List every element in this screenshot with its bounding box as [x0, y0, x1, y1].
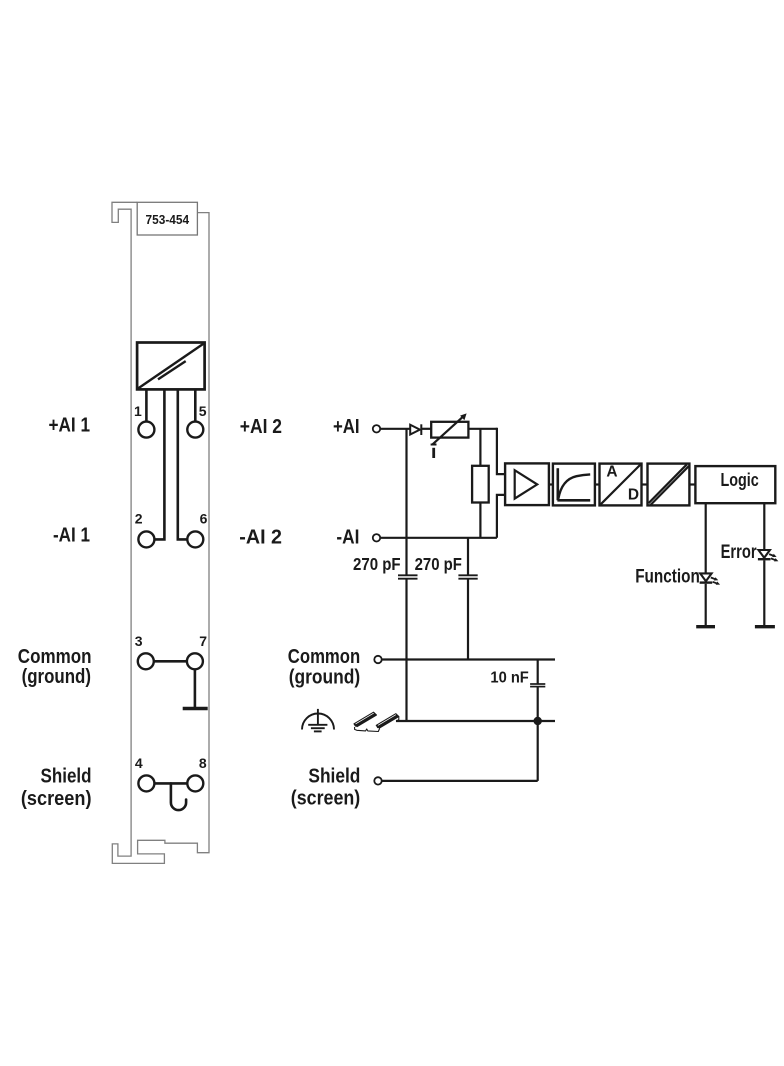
wire -AI node to tap line [380, 537, 497, 539]
wire logic to Function LED [705, 503, 707, 573]
shield hook symbol below wire 4-8 [171, 783, 186, 810]
terminal 1 [138, 422, 154, 438]
Function LED D2 [700, 573, 721, 584]
wire logic to Error LED [763, 503, 765, 550]
terminal 5 [187, 422, 203, 438]
A/D converter box U4 [600, 464, 642, 506]
node circle Shield [374, 777, 381, 784]
shunt resistor R2 [472, 466, 489, 503]
svg-text:(ground): (ground) [289, 667, 361, 689]
svg-text:5: 5 [199, 403, 207, 419]
wire upper tap into amplifier [497, 428, 505, 474]
wire branch C1 lower segment (cap C1 down to earth line) [405, 579, 407, 721]
shield wire to node [382, 780, 538, 782]
wire Error LED to ground bar [763, 560, 765, 626]
diode D1 [410, 424, 421, 435]
wire terminal 4 to terminal 8 [155, 782, 187, 785]
wire terminal 3 to terminal 7 [154, 660, 186, 663]
terminal 7 [187, 653, 203, 669]
svg-text:3: 3 [135, 633, 143, 649]
functional earth symbol [302, 709, 334, 732]
terminal 6 [187, 531, 203, 547]
wire A/D to isolation [642, 483, 648, 485]
node circle -AI [373, 534, 380, 541]
wire branch C2 lower segment (cap C2 down to Common line) [467, 579, 469, 660]
svg-text:+AI 1: +AI 1 [49, 415, 91, 437]
isolation box U5 (double diagonal) [648, 464, 690, 506]
terminal 8 [187, 775, 203, 791]
svg-text:2: 2 [135, 511, 143, 527]
svg-text:Common: Common [18, 646, 92, 668]
wire shunt bottom lead [479, 503, 481, 538]
module body outline with DIN-rail hook and foot [112, 202, 209, 863]
wire branch C2 upper segment (-AI down to cap C2) [467, 538, 469, 575]
Error LED D3 [758, 550, 779, 561]
svg-text:10 nF: 10 nF [490, 670, 529, 687]
capacitor C3 10 nF upper lead [537, 660, 539, 684]
wire +AI node to diode [380, 428, 410, 430]
svg-text:+AI 2: +AI 2 [240, 416, 282, 438]
MODULE-OUTLINE [112, 202, 209, 863]
wire filter to A/D [595, 483, 600, 485]
svg-text:(screen): (screen) [291, 788, 360, 810]
svg-text:8: 8 [199, 755, 207, 771]
junction dot [534, 717, 542, 725]
svg-text:+AI: +AI [333, 416, 360, 438]
capacitor C3 lower lead down to junction [537, 687, 539, 721]
DIN rail symbol (3D) [354, 712, 399, 731]
ground bar for Function LED [696, 625, 715, 628]
wire lower tap into amplifier [497, 495, 505, 538]
wire shunt top lead [479, 429, 481, 466]
svg-text:(ground): (ground) [22, 666, 91, 688]
svg-text:A: A [606, 464, 617, 481]
terminal 3 [138, 653, 154, 669]
variable resistor R1 (adjustable, with arrow) [431, 413, 469, 444]
filter box U3 (settling curve) [553, 464, 595, 506]
pin wire from box to terminal 6 (with jog) [178, 389, 187, 539]
svg-text:7: 7 [199, 633, 207, 649]
wire variable resistor to tap line [468, 428, 497, 430]
svg-text:1: 1 [134, 403, 142, 419]
wire isolation to logic [689, 483, 695, 485]
svg-text:6: 6 [200, 511, 208, 527]
svg-text:753-454: 753-454 [146, 212, 190, 227]
amplifier box U2 [505, 463, 549, 505]
svg-text:Shield: Shield [308, 765, 360, 787]
wire branch C1 upper segment (+AI down to cap C1) [405, 429, 407, 575]
logic box U6 [695, 466, 775, 503]
svg-text:Error: Error [721, 542, 757, 563]
wire Common node line [382, 658, 555, 660]
node circle +AI [373, 425, 380, 432]
converter box U1 (isolation symbol inside module) [137, 343, 205, 390]
svg-text:(screen): (screen) [21, 788, 92, 810]
capacitor C2 270 pF [458, 575, 477, 578]
wire Function LED to ground bar [705, 584, 707, 627]
svg-text:Logic: Logic [720, 469, 758, 490]
svg-text:Function: Function [635, 567, 700, 588]
svg-text:4: 4 [135, 755, 143, 771]
pin wire from box to terminal 1 [145, 389, 148, 421]
capacitor C3 10 nF [530, 684, 545, 687]
svg-text:D: D [628, 487, 639, 504]
terminal 4 [138, 775, 154, 791]
svg-text:-AI 2: -AI 2 [239, 527, 282, 549]
wire amplifier to filter [549, 483, 553, 485]
pin wire from box to terminal 5 [194, 389, 197, 421]
label I (current, below variable resistor) [432, 448, 435, 458]
chassis ground bar inside module [183, 707, 208, 710]
wire junction down to shield line [537, 721, 539, 781]
wire terminal 7 down to chassis bar [194, 670, 197, 709]
svg-text:-AI 1: -AI 1 [53, 525, 90, 547]
node circle Common [374, 656, 381, 663]
capacitor C1 270 pF [398, 575, 418, 578]
svg-text:Shield: Shield [41, 765, 92, 787]
wire diode to variable resistor [421, 428, 431, 430]
pin wire from box to terminal 2 (with jog) [155, 389, 165, 539]
svg-text:Common: Common [288, 646, 360, 668]
ground bar for Error LED [755, 625, 775, 628]
svg-text:-AI: -AI [336, 527, 359, 549]
svg-text:270 pF: 270 pF [353, 554, 401, 574]
label box 753-454 [137, 202, 197, 235]
earth line from DIN rail to right end [396, 720, 555, 722]
svg-text:270 pF: 270 pF [415, 554, 463, 574]
terminal 2 [138, 531, 154, 547]
